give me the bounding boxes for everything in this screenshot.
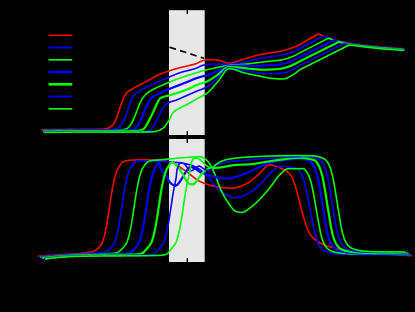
top panel curve green-3 — [43, 38, 404, 130]
top panel curve blue-4 — [44, 40, 404, 131]
bottom panel curve red-1 — [39, 160, 412, 256]
axis tick, bottom panel bottom spine — [186, 258, 188, 262]
bottom panel curve blue-6 — [45, 157, 407, 259]
top panel curve green-7 — [45, 45, 404, 132]
legend line blue-2 — [49, 47, 73, 49]
bottom panel curve blue-2 — [40, 161, 411, 257]
bottom panel curve green-5 — [43, 158, 407, 258]
gray band bottom panel — [169, 139, 205, 262]
top panel curve blue-6 — [45, 43, 404, 131]
legend line red-1 — [49, 34, 73, 36]
bottom panel curve green-7 — [46, 156, 406, 259]
top panel curve red-1 — [42, 34, 404, 130]
bottom panel curve green-3 — [41, 157, 410, 258]
legend line green-5 — [49, 83, 73, 86]
axis tick, bottom panel top spine — [186, 139, 188, 143]
gray band top panel — [169, 10, 205, 135]
bottom panel curve blue-4 — [42, 159, 408, 258]
legend line blue-6 — [49, 96, 73, 98]
top panel curve green-5 — [44, 42, 404, 132]
dashed black guide line (top panel) — [170, 47, 204, 58]
axis tick, top panel bottom spine — [186, 131, 188, 135]
legend line blue-4 — [49, 71, 73, 74]
legend line green-7 — [49, 108, 73, 110]
top panel curve blue-2 — [43, 36, 404, 130]
legend line green-3 — [49, 59, 73, 61]
axis tick, top panel top spine — [186, 10, 188, 14]
